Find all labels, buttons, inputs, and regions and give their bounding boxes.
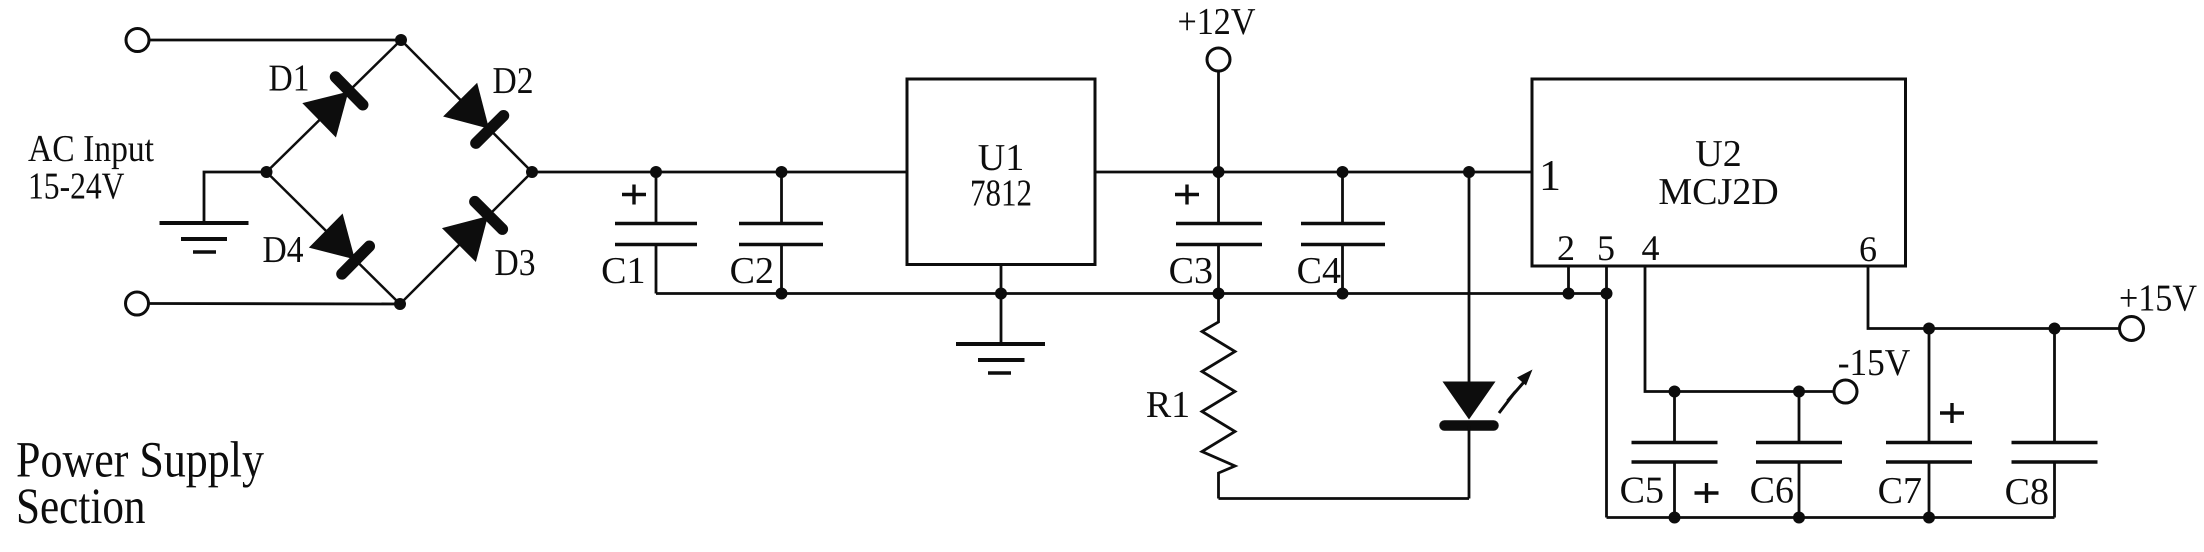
svg-text:D4: D4	[263, 229, 304, 271]
wire U1 ground pin	[1000, 265, 1003, 345]
label C6	[1750, 470, 1794, 512]
pin 6 label	[1859, 229, 1877, 269]
ground U1	[956, 344, 1045, 373]
wire bridge to U1	[532, 171, 907, 174]
node C3 top	[1213, 166, 1225, 178]
label D1	[269, 58, 310, 100]
node pin 2	[1563, 288, 1575, 300]
ground AC	[160, 223, 249, 252]
capacitor C7	[1886, 329, 1972, 518]
svg-text:C8: C8	[2005, 471, 2049, 513]
label U1	[970, 137, 1032, 215]
terminal +15V	[2120, 317, 2144, 341]
terminal +12V	[1207, 48, 1230, 71]
wire bottom rail	[1607, 516, 2055, 519]
wire to AC ground	[204, 172, 267, 223]
node bridge right	[526, 166, 538, 178]
capacitor C2	[739, 172, 823, 294]
node bridge top	[395, 34, 407, 46]
label C7	[1878, 470, 1922, 512]
node C6 bottom	[1793, 512, 1805, 524]
node C1 top	[650, 166, 662, 178]
svg-text:1: 1	[1539, 151, 1561, 200]
label C8	[2005, 471, 2049, 513]
svg-text:2: 2	[1557, 228, 1575, 268]
svg-text:U2: U2	[1695, 133, 1741, 175]
node bridge bottom	[394, 298, 406, 310]
node pin 5	[1601, 288, 1613, 300]
wire ground rail	[656, 292, 1607, 295]
node C7 bottom	[1923, 512, 1935, 524]
diode D4	[309, 214, 373, 278]
terminal AC top	[126, 29, 149, 52]
capacitor C3	[1175, 172, 1262, 294]
svg-text:C3: C3	[1169, 250, 1213, 292]
wire pin 5	[1605, 266, 1608, 518]
label R1	[1146, 384, 1190, 426]
svg-text:-15V: -15V	[1838, 342, 1911, 384]
svg-text:R1: R1	[1146, 384, 1190, 426]
node C5 top	[1669, 386, 1681, 398]
node C7 top	[1923, 323, 1935, 335]
label D3	[495, 242, 536, 284]
label U2	[1658, 133, 1778, 213]
wire bridge edges	[267, 40, 533, 304]
node C4 top	[1337, 166, 1349, 178]
svg-text:AC Input: AC Input	[28, 128, 154, 170]
wire pin 4 to -15V	[1645, 266, 1834, 392]
node C3 bottom	[1213, 288, 1225, 300]
node C8 top	[2049, 323, 2061, 335]
node C2 top	[776, 166, 788, 178]
capacitor C8	[2012, 329, 2098, 518]
node C6 top	[1793, 386, 1805, 398]
wire	[149, 302, 400, 305]
terminal AC bottom	[126, 292, 149, 315]
node C4 bottom	[1337, 288, 1349, 300]
svg-text:MCJ2D: MCJ2D	[1658, 171, 1778, 213]
svg-text:C4: C4	[1297, 250, 1341, 292]
resistor R1	[1202, 294, 1235, 499]
svg-text:7812: 7812	[970, 173, 1032, 215]
capacitor C1	[615, 172, 697, 294]
svg-text:C7: C7	[1878, 470, 1922, 512]
capacitor C5	[1632, 392, 1719, 518]
diode D2	[443, 83, 507, 147]
wire	[1217, 72, 1220, 173]
label D2	[493, 60, 534, 102]
wire pin 6 to +15V	[1868, 266, 2119, 329]
svg-text:D2: D2	[493, 60, 534, 102]
label D4	[263, 229, 304, 271]
diode D1	[302, 74, 366, 138]
capacitor C4	[1301, 172, 1385, 294]
svg-text:4: 4	[1642, 228, 1660, 268]
pin 2 label	[1557, 228, 1575, 268]
label C4	[1297, 250, 1341, 292]
op-amp U2 box	[1532, 79, 1906, 266]
svg-text:C2: C2	[730, 250, 774, 292]
svg-text:15-24V: 15-24V	[28, 166, 125, 208]
wire	[150, 39, 402, 42]
label C5	[1620, 470, 1664, 512]
svg-text:5: 5	[1597, 228, 1615, 268]
op-amp U1 box	[907, 79, 1095, 265]
label C3	[1169, 250, 1213, 292]
label +15V	[2119, 278, 2197, 320]
svg-text:Section: Section	[16, 479, 146, 535]
label C1	[601, 250, 645, 292]
wire pin 2	[1567, 266, 1570, 294]
pin 1 label	[1539, 151, 1561, 200]
node C2 bottom	[776, 288, 788, 300]
svg-text:D1: D1	[269, 58, 310, 100]
title Power Supply Section	[16, 433, 264, 536]
svg-text:+15V: +15V	[2119, 278, 2197, 320]
capacitor C6	[1756, 392, 1842, 518]
svg-text:C5: C5	[1620, 470, 1664, 512]
pin 5 label	[1597, 228, 1615, 268]
node bridge left	[261, 166, 273, 178]
svg-text:6: 6	[1859, 229, 1877, 269]
svg-text:+12V: +12V	[1178, 1, 1256, 43]
label +12V	[1178, 1, 1256, 43]
pin 4 label	[1642, 228, 1660, 268]
terminal -15V	[1834, 380, 1857, 403]
svg-text:C1: C1	[601, 250, 645, 292]
AC input label	[28, 128, 154, 208]
LED arrows	[1499, 370, 1533, 414]
label C2	[730, 250, 774, 292]
svg-text:D3: D3	[495, 242, 536, 284]
wire U1 to U2	[1095, 171, 1532, 174]
node C5 bottom	[1669, 512, 1681, 524]
node LED top	[1463, 166, 1475, 178]
label -15V	[1838, 342, 1911, 384]
node U1 ground	[995, 288, 1007, 300]
svg-text:C6: C6	[1750, 470, 1794, 512]
diode D3	[442, 198, 506, 262]
LED diode	[1443, 172, 1496, 499]
wire R1 to LED	[1219, 497, 1470, 500]
